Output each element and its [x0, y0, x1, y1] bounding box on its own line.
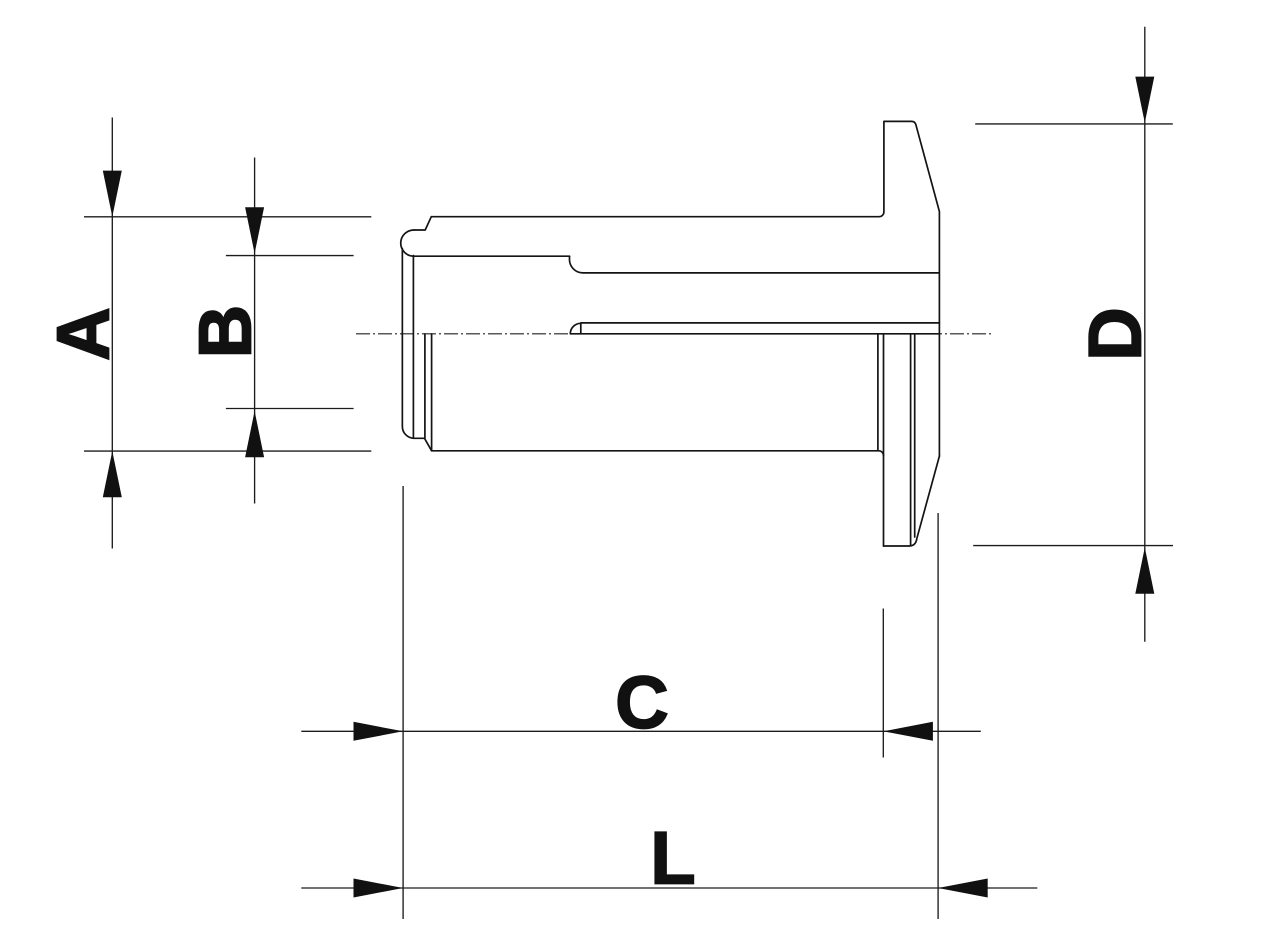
svg-text:A: A: [42, 307, 125, 360]
svg-text:C: C: [615, 661, 668, 744]
svg-text:D: D: [1074, 307, 1157, 360]
svg-text:L: L: [650, 816, 695, 899]
svg-text:B: B: [184, 305, 267, 358]
